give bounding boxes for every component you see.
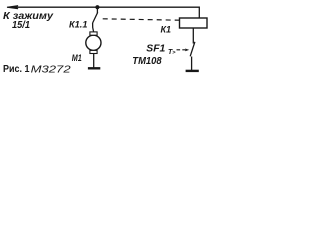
wire: top line down to relay coil K1 bbox=[198, 7, 200, 19]
svg-text:К1.1: К1.1 bbox=[69, 20, 88, 31]
thermal contact SF1 blade bbox=[190, 42, 195, 57]
wire: top supply line bbox=[8, 6, 200, 8]
svg-text:ТМ108: ТМ108 bbox=[132, 55, 162, 67]
terminal arrow to clamp 15/1 bbox=[7, 6, 18, 9]
wire: coil K1 down to thermal contact SF1 bbox=[192, 28, 194, 44]
mechanical link (dashed) from K1.1 to coil K1 bbox=[103, 19, 180, 20]
wire: contact K1.1 to motor M1 bbox=[93, 23, 94, 32]
svg-text:SF1: SF1 bbox=[146, 43, 165, 55]
ground (SF1) bbox=[186, 70, 199, 72]
svg-text:К1: К1 bbox=[161, 25, 172, 36]
relay coil K1 bbox=[180, 18, 208, 28]
contact K1.1 blade bbox=[93, 12, 98, 23]
svg-text:15/1: 15/1 bbox=[12, 20, 30, 31]
arrowhead of actuation arrow bbox=[185, 49, 189, 52]
ground (motor M1) bbox=[88, 67, 100, 69]
wire: motor M1 to ground bbox=[93, 54, 95, 68]
wire: junction down to contact K1.1 bbox=[96, 7, 98, 13]
wire: SF1 to ground bbox=[191, 57, 193, 71]
svg-text:Т>: Т> bbox=[168, 49, 176, 56]
svg-text:М1: М1 bbox=[72, 53, 82, 64]
svg-text:Рис. 1: Рис. 1 bbox=[3, 63, 30, 75]
dashed actuation arrow to SF1 blade bbox=[177, 49, 186, 51]
node: junction of K1.1 branch bbox=[95, 5, 99, 9]
svg-text:М3272: М3272 bbox=[31, 65, 72, 76]
motor M1 bbox=[86, 32, 101, 54]
